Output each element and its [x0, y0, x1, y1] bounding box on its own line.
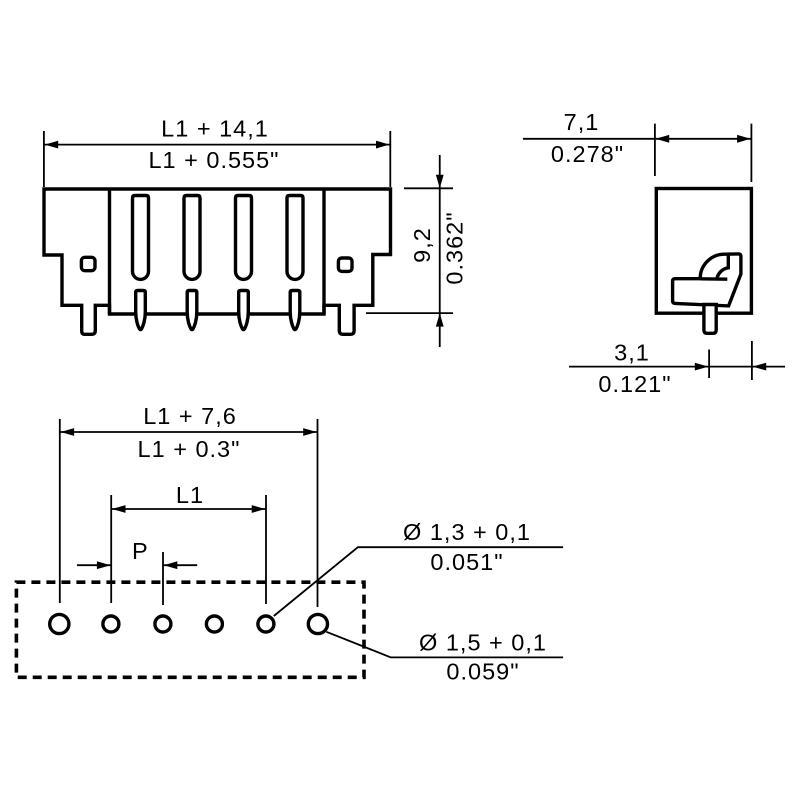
solder pin 3: [239, 291, 249, 330]
arrow left: [61, 428, 75, 436]
dimension 3,1 line: [569, 366, 785, 368]
dimension P line left segment: [77, 564, 111, 566]
slot 2: [184, 196, 200, 280]
dimension 9,2 top extension line: [404, 187, 453, 189]
latch hole right: [338, 258, 352, 271]
front view body outline: [44, 189, 391, 334]
arrow right: [376, 141, 390, 149]
svg-text:0.121": 0.121": [598, 371, 671, 397]
pcb outline dashed: [16, 582, 364, 677]
hole 4: [206, 616, 222, 632]
dimension 7,1 line: [523, 138, 751, 140]
release lever: [673, 254, 741, 306]
dimension L1+7,6 line: [60, 431, 318, 433]
dimension 7,1 extension line left: [654, 124, 656, 176]
svg-text:Ø 1,3 + 0,1: Ø 1,3 + 0,1: [403, 519, 531, 545]
hole 2: [103, 616, 119, 632]
slot 3: [236, 196, 252, 280]
solder pin 1: [136, 291, 146, 330]
dimension 9,2 bottom extension line: [366, 312, 453, 314]
svg-text:3,1: 3,1: [614, 340, 650, 366]
arrow left: [656, 135, 670, 143]
side view pin: [704, 305, 716, 334]
svg-text:0.051": 0.051": [430, 549, 503, 575]
arrow pointing left at P right: [164, 561, 178, 569]
hole 6: [308, 614, 327, 633]
svg-text:P: P: [132, 538, 149, 564]
slot 4: [287, 196, 303, 280]
arrow right: [737, 135, 751, 143]
hole 3: [155, 616, 171, 632]
svg-text:0.362": 0.362": [441, 211, 467, 284]
arrow top: [436, 175, 444, 189]
dimension L1+14,1 extension line right: [389, 131, 391, 187]
arrow left: [695, 363, 709, 371]
svg-text:9,2: 9,2: [409, 227, 435, 263]
partition line right: [322, 189, 325, 314]
solder pin 2: [187, 291, 197, 330]
svg-text:0.059": 0.059": [446, 659, 519, 685]
dimension 3,1 extension line left: [708, 350, 710, 379]
hole 1: [50, 614, 69, 633]
svg-text:L1 + 0.555": L1 + 0.555": [148, 147, 279, 173]
dimension L1 line: [111, 508, 266, 510]
dimension P extension line right: [162, 552, 164, 605]
svg-text:L1: L1: [176, 482, 204, 508]
svg-text:0.278": 0.278": [551, 141, 624, 167]
svg-text:Ø 1,5 + 0,1: Ø 1,5 + 0,1: [419, 630, 547, 656]
side view body: [656, 189, 751, 314]
svg-text:7,1: 7,1: [564, 109, 600, 135]
dimension L1+14,1 extension line left: [43, 131, 45, 187]
arrow bottom: [436, 313, 444, 327]
svg-text:L1 + 7,6: L1 + 7,6: [143, 403, 237, 429]
solder pin 4: [290, 291, 300, 330]
dimension L1 extension line right: [265, 495, 267, 604]
arrow right: [252, 505, 266, 513]
slot 1: [133, 196, 149, 280]
leader line hole dia 1,5: [326, 632, 563, 658]
dimension L1 extension line left: [110, 495, 112, 603]
arrow left: [112, 505, 126, 513]
arrow right: [753, 363, 767, 371]
dimension 7,1 extension line right: [750, 124, 752, 182]
partition line left: [108, 189, 111, 314]
hole 5: [258, 616, 274, 632]
dimension 9,2 line: [439, 155, 441, 347]
arrow right: [303, 428, 317, 436]
dimension P line right segment: [163, 564, 197, 566]
latch hole left: [81, 257, 95, 270]
lever inner arc: [717, 254, 729, 279]
arrow left: [45, 141, 59, 149]
dimension L1+7,6 extension line right: [317, 419, 319, 607]
dimension L1+14,1 line: [44, 144, 390, 146]
leader line hole dia 1,3: [274, 547, 563, 616]
arrow pointing right at P left: [97, 561, 111, 569]
lever bar top edge: [700, 277, 727, 281]
dimension 3,1 extension line right: [751, 341, 753, 380]
svg-text:L1 + 14,1: L1 + 14,1: [161, 116, 269, 142]
dimension L1+7,6 extension line left: [59, 419, 61, 603]
svg-text:L1 + 0.3": L1 + 0.3": [138, 436, 241, 462]
